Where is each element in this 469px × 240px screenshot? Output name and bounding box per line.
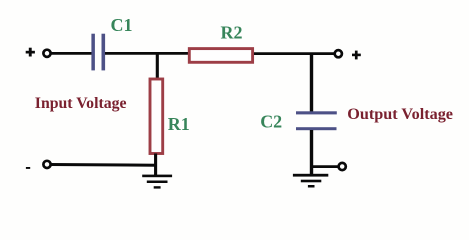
svg-text:Output Voltage: Output Voltage <box>347 105 453 123</box>
terminal IN- <box>43 161 50 168</box>
svg-text:R2: R2 <box>221 22 243 42</box>
wire junction drop to R1 <box>156 53 159 79</box>
resistor R2 <box>189 49 252 63</box>
plus sign output terminal <box>352 51 361 60</box>
wire R1 to ground <box>154 154 157 176</box>
svg-text:Input Voltage: Input Voltage <box>35 95 127 112</box>
wire C2 to ground <box>310 130 313 175</box>
wire IN- to ground rail <box>50 163 157 167</box>
minus sign input terminal <box>26 167 30 169</box>
wire C1 to R2 <box>105 52 189 55</box>
resistor R1 <box>150 79 163 154</box>
svg-text:C1: C1 <box>111 15 133 35</box>
capacitor C2 <box>296 111 337 130</box>
terminal OUT+ <box>335 50 342 57</box>
terminal OUT- <box>339 163 346 170</box>
svg-text:C2: C2 <box>260 112 282 132</box>
wire IN+ to C1 <box>50 52 93 55</box>
plus sign input terminal <box>26 48 35 57</box>
wire C2 branch to OUT- <box>312 165 339 168</box>
wire junction drop to C2 <box>310 54 313 113</box>
ground under C2 <box>293 174 328 188</box>
svg-text:R1: R1 <box>168 114 190 134</box>
terminal IN+ <box>43 50 50 57</box>
capacitor C1 <box>91 34 105 71</box>
wire R2 to OUT+ <box>254 52 335 55</box>
ground under R1 <box>142 175 172 189</box>
